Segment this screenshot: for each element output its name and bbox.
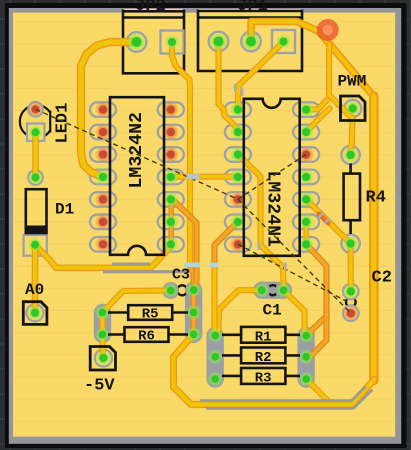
svg-text:R6: R6 [138, 329, 155, 345]
wire IC2 right pin7 down to R2 right (bottom layer) [306, 244, 326, 357]
op-amp U2 LM324N1 pin 14 pad [293, 102, 319, 117]
capacitor C3 left pad core [163, 283, 179, 299]
op-amp U1 LM324N2 pin 13 pad core [163, 124, 179, 140]
resistor R6 left pad core [95, 327, 111, 343]
connector JP2 pin 2 pad (square) [161, 31, 184, 54]
wire IC2 right pin2 to R4 top branch [306, 109, 329, 132]
bendpoint marks on JP1-3 trace [235, 84, 242, 97]
wire C1 right to R1 right [284, 290, 305, 335]
resistor R6 outline [125, 327, 169, 342]
connector JP2 pin 2 pad (square) core [165, 35, 180, 50]
wire IC2 right pin1 up to PWM branch [306, 98, 329, 109]
resistor R4 top pad [341, 146, 359, 164]
svg-text:R2: R2 [255, 350, 272, 366]
bendpoint marks on R4 diagonal [319, 213, 330, 224]
svg-text:PWM: PWM [338, 73, 367, 91]
LED LED1 anode pad [28, 102, 43, 117]
op-amp U1 LM324N2 pin 7 pad [90, 237, 116, 252]
wire D1 bottom pad to IC1 right pin7 [35, 245, 171, 268]
bus: JP1-2 - fork - right edge top [251, 22, 374, 98]
wire JP2-2 down toward C3 right pad (top layer) [172, 42, 190, 266]
stub chain IC1 right pins 5-6-7 [168, 199, 173, 244]
op-amp U2 LM324N1 pin 14 pad core [298, 101, 314, 117]
wire R4 bottom to C2 top [348, 244, 354, 292]
resistor R3 outline [241, 368, 285, 384]
resistor R1 outline [241, 327, 285, 343]
op-amp U1 LM324N2 pin 10 pad core [163, 191, 179, 207]
connector JP2 pin 1 pad core [127, 33, 146, 52]
node A0 pad [26, 304, 43, 321]
diode D1 top pad core [28, 170, 43, 185]
wire gray bottom bus inner [200, 387, 366, 401]
op-amp U1 LM324N2 pin 4 pad [90, 170, 116, 185]
svg-text:R3: R3 [255, 371, 272, 387]
capacitor C2 bottom pad [343, 305, 359, 321]
op-amp U2 LM324N1 pin 7 pad core [230, 236, 246, 252]
diode D1 outline [26, 189, 47, 233]
connector JP1 pin 1 pad [209, 32, 229, 52]
via marker cyan right [210, 263, 219, 268]
op-amp U1 LM324N2 pin 6 pad [90, 215, 116, 230]
op-amp U1 LM324N2 pin 10 pad [158, 192, 184, 207]
op-amp U1 LM324N2 pin 8 pad core [163, 236, 179, 252]
wire R3 right to bottom bus [306, 379, 331, 404]
svg-text:R5: R5 [142, 307, 159, 323]
diode D1 top pad [28, 170, 43, 185]
resistor R4 outline [344, 174, 360, 221]
via marker gray-blue on pin4 net [187, 174, 200, 180]
LED LED1 outline [20, 105, 50, 138]
connector JP1 body [198, 9, 302, 71]
svg-text:LM324N1: LM324N1 [262, 171, 282, 247]
svg-text:C1: C1 [263, 302, 282, 320]
wire IC2 left pin3 to C1 left [238, 154, 284, 290]
wire R5 left up to C3 left [103, 291, 171, 313]
resistor R2 outline [241, 348, 285, 364]
op-amp U1 LM324N2 pin 2 pad [90, 125, 116, 140]
svg-text:LED1: LED1 [53, 103, 72, 144]
node A0 pad core [27, 305, 43, 321]
node -5V pad outline [90, 347, 115, 371]
connector JP1 pin 3 pad (square) [272, 30, 295, 53]
C3 right / R5 R6 right pad column blob [185, 281, 202, 343]
op-amp U1 LM324N2 pin 14 pad [158, 102, 184, 117]
op-amp U2 LM324N1 pin 3 pad core [230, 146, 246, 162]
op-amp U1 LM324N2 pin 9 pad core [163, 214, 179, 230]
op-amp U2 LM324N1 pin 5 pad core [230, 191, 246, 207]
capacitor C3 outline [177, 285, 187, 295]
op-amp U2 LM324N1 pin 1 pad [225, 102, 251, 117]
op-amp U2 LM324N1 pin 2 pad core [230, 124, 246, 140]
node PWM pad core [345, 101, 361, 117]
diode D1 bottom pad (square) core [28, 237, 43, 252]
LED LED1 cathode pad (square) core [28, 125, 43, 140]
wire JP2-1 to IC1 pin4 left [81, 42, 132, 177]
LED LED1 cathode pad (square) [27, 124, 44, 141]
resistor R4 bottom pad core [343, 236, 359, 252]
via marker cyan left [184, 263, 200, 268]
node PWM pad outline [341, 96, 366, 121]
stub IC2 right pins 6-7 [303, 222, 308, 245]
pad discs over capacitor circles [253, 282, 270, 299]
resistor R5 outline [128, 305, 172, 320]
svg-text:C3: C3 [172, 267, 190, 284]
connector JP2 pin 1 pad [127, 32, 147, 52]
op-amp U2 LM324N1 pin 1 pad core [230, 101, 246, 117]
bus: bottom run to R6 right pad [174, 334, 375, 404]
wire branch to R1 right (bottom layer) [306, 316, 326, 336]
svg-text:LM324N2: LM324N2 [127, 112, 147, 188]
ratsnest U2 pin5 to C2 [238, 199, 351, 313]
resistor R4 top pad core [343, 147, 359, 163]
connector JP1 pin 2 pad core [242, 32, 261, 51]
wire JP1-1 down to IC2 pin2 left [219, 42, 238, 132]
op-amp U2 LM324N1 pin 3 pad [225, 147, 251, 162]
op-amp U1 LM324N2 pin 5 pad core [95, 191, 111, 207]
bus: right edge vertical [369, 96, 379, 381]
svg-text:JP2: JP2 [135, 0, 166, 16]
capacitor C2 top pad core [343, 284, 359, 300]
wire IC1 right pin5 down to C3 right pad (bottom layer) [171, 199, 196, 290]
wire R4 bottom to IC2 right pin5 [306, 199, 351, 243]
wire via-jog into C3 right pad (bottom layer) [190, 266, 194, 290]
op-amp U2 LM324N1 pin 6 pad core [230, 214, 246, 230]
op-amp U2 LM324N1 pin 12 pad core [298, 146, 314, 162]
op-amp U2 LM324N1 pin 12 pad [293, 147, 319, 162]
node -5V pad [95, 349, 112, 366]
svg-text:-5V: -5V [84, 377, 115, 396]
diode D1 bottom pad (square) [24, 235, 47, 256]
wire gray bottom bus outer [206, 390, 373, 409]
op-amp U2 LM324N1 pin 4 pad [225, 170, 251, 185]
op-amp U1 LM324N2 pin 1 pad core [95, 101, 111, 117]
svg-text:JP1: JP1 [237, 0, 268, 16]
op-amp U2 LM324N1 pin 9 pad [293, 215, 319, 230]
wire IC2 left pin6 down (bottom layer above via) [215, 222, 238, 265]
wire A0 to D1 bottom pad [32, 245, 39, 313]
op-amp U1 LM324N2 pin 11 pad core [163, 169, 179, 185]
node -5V pad core [96, 350, 112, 366]
DRC red circle marker [317, 19, 339, 41]
LED LED1 anode pad core [28, 102, 43, 117]
op-amp U1 LM324N2 pin 5 pad [90, 192, 116, 207]
svg-text:D1: D1 [55, 201, 74, 219]
wire fork to PWM pad to R4 top [329, 45, 353, 156]
capacitor C1 outline [268, 285, 278, 295]
wire IC1 pin4 to IC2 pin4 [171, 174, 238, 180]
svg-text:R4: R4 [366, 189, 386, 208]
resistors R1 R2 R3 left pad column blob [207, 327, 224, 388]
op-amp U2 LM324N1 pin 9 pad core [298, 214, 314, 230]
capacitor C3 left pad [162, 282, 179, 299]
connector JP1 pin 1 pad core [209, 32, 228, 51]
op-amp U1 LM324N2 pin 8 pad [158, 237, 184, 252]
op-amp U2 LM324N1 pin 10 pad core [298, 191, 314, 207]
wire JP1-3 down to IC2 pin1 left [238, 42, 284, 110]
op-amp U2 LM324N1 pin 13 pad [293, 125, 319, 140]
wire gray trace upper (D1 area) [112, 263, 150, 266]
op-amp U2 LM324N1 pin 11 pad [293, 170, 319, 185]
op-amp U1 LM324N2 pin 6 pad core [95, 214, 111, 230]
wire C1 left to R1 left [216, 290, 262, 335]
capacitor C1 pad blob [253, 282, 292, 299]
stub C3 right column pads (bottom layer) [191, 290, 197, 334]
ratsnest U2 pin5 to U2 right pin3 [238, 154, 306, 199]
node PWM pad [344, 100, 361, 117]
resistors R1 R2 R3 right pad column blob [297, 327, 314, 388]
op-amp U1 LM324N2 pin 13 pad [158, 125, 184, 140]
svg-text:C2: C2 [372, 269, 392, 288]
capacitor C2 top pad [343, 284, 359, 300]
op-amp U2 LM324N1 pin 6 pad [225, 215, 251, 230]
resistor R4 bottom pad [341, 234, 359, 252]
svg-text:A0: A0 [25, 281, 44, 299]
op-amp U1 LM324N2 pin 3 pad core [95, 146, 111, 162]
wire gray trace lower (D1 area) [103, 270, 189, 273]
op-amp U2 LM324N1 pin 7 pad [225, 237, 251, 252]
wire LED1 bottom to D1 top [32, 132, 39, 177]
connector JP1 pin 3 pad (square) core [276, 34, 291, 49]
op-amp U2 LM324N1 pin 4 pad core [230, 169, 246, 185]
op-amp U2 LM324N1 pin 2 pad [225, 125, 251, 140]
op-amp U2 LM324N1 pin 8 pad [293, 237, 319, 252]
op-amp U1 LM324N2 pin 3 pad [90, 147, 116, 162]
op-amp U1 LM324N2 pin 7 pad core [95, 236, 111, 252]
op-amp U1 LM324N2 pin 1 pad [90, 102, 116, 117]
op-amp U2 LM324N1 pin 11 pad core [298, 169, 314, 185]
op-amp U2 LM324N1 pin 5 pad [225, 192, 251, 207]
bendpoint marks on U2 pin3 trace [259, 243, 286, 271]
connector JP2 body [123, 9, 184, 73]
resistor R5 left pad core [95, 305, 111, 321]
op-amp U2 LM324N1 pin 8 pad core [298, 236, 314, 252]
resistor R5 / R6 left pad blob [94, 304, 111, 343]
capacitor C2 bottom pad core [343, 305, 359, 321]
op-amp U1 LM324N2 pin 4 pad core [95, 169, 111, 185]
DRC red segment on R4 diagonal [319, 214, 328, 223]
op-amp U1 LM324N2 pin 9 pad [158, 215, 184, 230]
wire via to R1 left (top layer) [211, 265, 217, 336]
capacitor C2 outline [346, 297, 356, 307]
op-amp U1 LM324N2 outline [110, 97, 164, 255]
stub R5 left - R6 left - -5V pad [99, 313, 106, 359]
op-amp U2 LM324N1 pin 10 pad [293, 192, 319, 207]
op-amp U1 LM324N2 pin 12 pad core [163, 146, 179, 162]
op-amp U2 LM324N1 pin 13 pad core [298, 124, 314, 140]
svg-text:R1: R1 [255, 330, 272, 346]
op-amp U1 LM324N2 pin 12 pad [158, 147, 184, 162]
ratsnest LED1 to U2 pin5 [36, 109, 238, 199]
op-amp U1 LM324N2 pin 2 pad core [95, 124, 111, 140]
node A0 pad outline [23, 302, 47, 325]
op-amp U1 LM324N2 pin 11 pad [158, 170, 184, 185]
connector JP1 pin 2 pad [241, 32, 261, 52]
ratsnest U2 pin7 to C2 [238, 244, 346, 301]
op-amp U1 LM324N2 pin 14 pad core [163, 101, 179, 117]
op-amp U2 LM324N1 outline [244, 99, 300, 256]
